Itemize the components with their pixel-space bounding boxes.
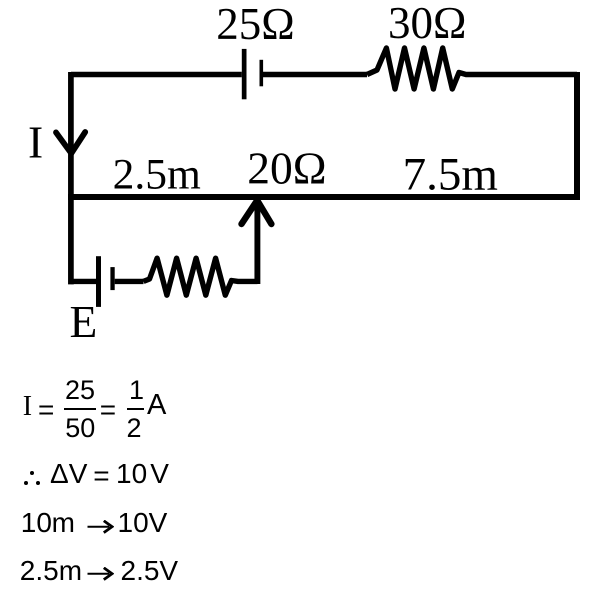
svg-text:2.5m: 2.5m	[113, 150, 201, 198]
svg-text:7.5m: 7.5m	[403, 148, 498, 200]
svg-text:I: I	[28, 117, 43, 168]
svg-text:E: E	[70, 296, 98, 347]
svg-text:20Ω: 20Ω	[247, 143, 326, 194]
svg-text:25Ω: 25Ω	[216, 0, 294, 49]
svg-text:30Ω: 30Ω	[388, 0, 466, 48]
